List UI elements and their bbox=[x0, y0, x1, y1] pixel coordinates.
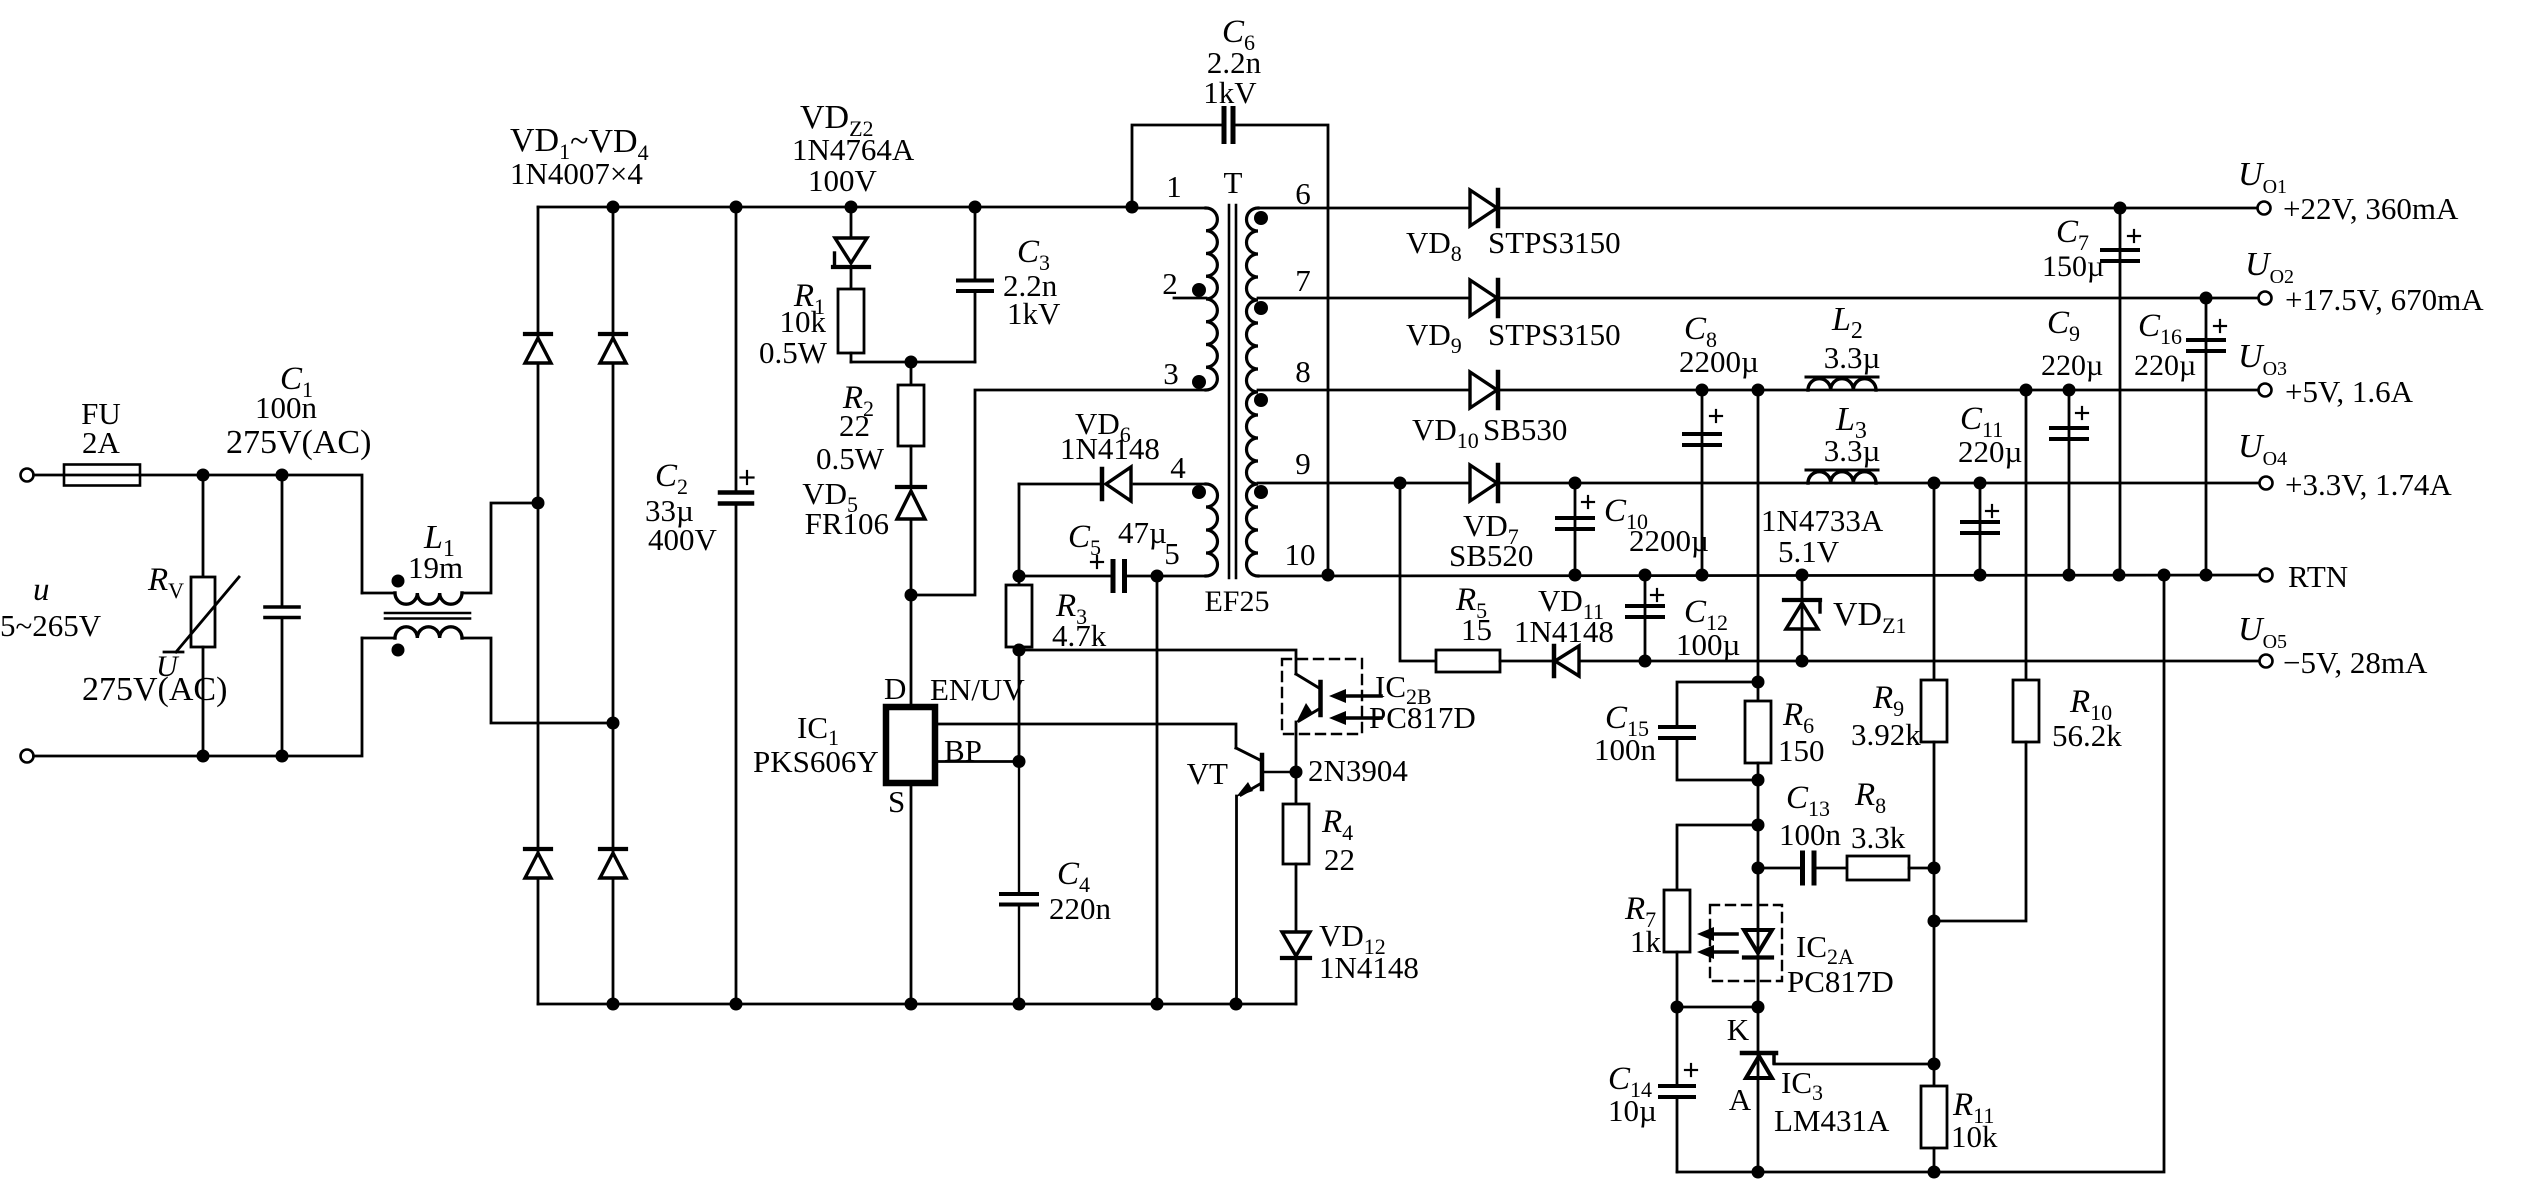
resistor R11 bbox=[1921, 1086, 1947, 1148]
svg-text:IC3: IC3 bbox=[1781, 1065, 1823, 1105]
svg-text:10µ: 10µ bbox=[1608, 1093, 1657, 1128]
wire VD11 to UO5 terminal bbox=[1580, 660, 2259, 663]
wire BP pin bbox=[935, 760, 1019, 763]
svg-text:2: 2 bbox=[1162, 266, 1178, 301]
svg-text:1N4148: 1N4148 bbox=[1060, 431, 1160, 466]
svg-text:1N4733A: 1N4733A bbox=[1761, 503, 1884, 538]
node C13 branch bbox=[1752, 862, 1765, 875]
svg-text:PKS606Y: PKS606Y bbox=[753, 744, 879, 779]
svg-text:VDZ1: VDZ1 bbox=[1833, 596, 1907, 638]
wire R3 bottom to optocoupler collector bbox=[1019, 650, 1296, 674]
choke L1 top winding bbox=[362, 592, 395, 595]
svg-text:0.5W: 0.5W bbox=[759, 335, 828, 370]
svg-text:EF25: EF25 bbox=[1204, 585, 1269, 618]
svg-text:1k: 1k bbox=[1630, 924, 1662, 959]
capacitor C15 bbox=[1677, 682, 1758, 725]
svg-text:C7: C7 bbox=[2056, 214, 2089, 255]
plus sign C12 bbox=[1651, 594, 1663, 596]
svg-text:3.92k: 3.92k bbox=[1851, 717, 1921, 752]
svg-text:K: K bbox=[1727, 1012, 1750, 1047]
wire DC+ top bus bbox=[538, 206, 1132, 209]
wire S pin to bottom bus bbox=[910, 783, 913, 1004]
svg-text:5.1V: 5.1V bbox=[1778, 534, 1840, 569]
diode VD5 bbox=[897, 485, 925, 489]
svg-text:VD10: VD10 bbox=[1412, 412, 1479, 453]
capacitor C6 bbox=[1132, 125, 1222, 208]
capacitor C11 bbox=[1979, 483, 1982, 575]
inductor L3 bbox=[1808, 472, 1876, 483]
node bias bbox=[1013, 570, 1026, 583]
svg-text:+5V, 1.6A: +5V, 1.6A bbox=[2285, 374, 2414, 409]
node pin5 tap bbox=[1151, 570, 1164, 583]
svg-text:1N4007×4: 1N4007×4 bbox=[510, 156, 643, 191]
svg-text:A: A bbox=[1729, 1082, 1752, 1117]
wire AC neutral rail bbox=[34, 638, 363, 756]
wire to C13 bbox=[1758, 867, 1800, 870]
svg-text:S: S bbox=[888, 784, 905, 819]
diode VD10 bbox=[1470, 372, 1497, 408]
resistor R2 bbox=[910, 362, 913, 385]
plus sign C7 bbox=[2128, 235, 2140, 237]
wire pin1 bbox=[1132, 207, 1206, 210]
choke L1 polarity dot top bbox=[392, 575, 405, 588]
wire feedback ground bus bbox=[1677, 575, 2164, 1172]
node LED cathode bbox=[1752, 1001, 1765, 1014]
plus sign C16 bbox=[2214, 325, 2226, 327]
svg-text:2200µ: 2200µ bbox=[1629, 523, 1709, 558]
svg-text:IC2A: IC2A bbox=[1796, 929, 1854, 969]
shunt regulator IC3 LM431A bbox=[1757, 1007, 1760, 1172]
svg-text:100n: 100n bbox=[255, 390, 318, 425]
wire drain to IC1 D pin bbox=[910, 595, 913, 708]
transformer secondary winding pins 6-10 bbox=[1247, 208, 1259, 576]
capacitor C9 bbox=[2068, 390, 2071, 575]
resistor R8 bbox=[1847, 856, 1909, 880]
diode VD4 bbox=[600, 847, 626, 851]
svg-text:47µ: 47µ bbox=[1118, 515, 1167, 550]
diode VD8 bbox=[1470, 190, 1497, 226]
wire bridge left column bbox=[537, 207, 540, 1004]
wire drain to pin3 bbox=[911, 390, 1206, 595]
plus sign C9 bbox=[2076, 412, 2088, 414]
svg-text:2200µ: 2200µ bbox=[1679, 344, 1759, 379]
svg-text:2A: 2A bbox=[82, 425, 121, 460]
zener diode VDZ2 bbox=[850, 207, 853, 238]
svg-text:100V: 100V bbox=[808, 163, 878, 198]
svg-text:PC817D: PC817D bbox=[1369, 700, 1476, 735]
optocoupler phototransistor IC2B bbox=[1318, 682, 1323, 715]
svg-text:SB530: SB530 bbox=[1483, 412, 1567, 447]
plus sign C10 bbox=[1582, 501, 1594, 503]
svg-text:FR106: FR106 bbox=[805, 506, 889, 541]
svg-text:19m: 19m bbox=[408, 550, 463, 585]
svg-text:1kV: 1kV bbox=[1007, 296, 1061, 331]
svg-text:LM431A: LM431A bbox=[1774, 1103, 1890, 1138]
input terminal top (L) bbox=[21, 469, 34, 482]
plus sign C11 bbox=[1986, 510, 1998, 512]
resistor R7 bbox=[1664, 890, 1690, 952]
node drain bbox=[905, 589, 918, 602]
node BP bbox=[1013, 755, 1026, 768]
diode VD9 bbox=[1470, 280, 1497, 316]
resistor R4 bbox=[1295, 772, 1298, 804]
capacitor C7 bbox=[2119, 208, 2122, 575]
diode VD11 bbox=[1555, 646, 1579, 676]
node VT base bbox=[1290, 766, 1303, 779]
svg-text:4: 4 bbox=[1170, 450, 1186, 485]
wire output UO2 +17.5V line (pin7) bbox=[1258, 297, 2258, 300]
svg-text:R8: R8 bbox=[1854, 777, 1886, 818]
wire output UO1 +22V line (pin6) bbox=[1258, 207, 2257, 210]
svg-text:−5V, 28mA: −5V, 28mA bbox=[2283, 645, 2428, 680]
svg-text:150: 150 bbox=[1778, 733, 1825, 768]
svg-text:100n: 100n bbox=[1779, 817, 1842, 852]
wire EN/UV to VT collector bbox=[935, 724, 1236, 748]
wire R6 column from +5V bbox=[1757, 390, 1760, 701]
input terminal bottom (N) bbox=[21, 750, 34, 763]
wire VD6 down to C5 node bbox=[1018, 484, 1021, 576]
wire live rail to choke bbox=[140, 475, 362, 593]
resistor R5 bbox=[1436, 650, 1500, 672]
svg-text:C9: C9 bbox=[2047, 305, 2080, 346]
transformer secondary polarity dots bbox=[1254, 211, 1268, 225]
svg-text:0.5W: 0.5W bbox=[816, 441, 885, 476]
svg-text:10: 10 bbox=[1285, 537, 1316, 572]
svg-text:+3.3V, 1.74A: +3.3V, 1.74A bbox=[2285, 467, 2452, 502]
wire output UO3 +5V line (pin8) bbox=[1258, 389, 2258, 392]
svg-text:C16: C16 bbox=[2138, 308, 2182, 349]
svg-text:R6: R6 bbox=[1782, 697, 1814, 738]
svg-text:3.3µ: 3.3µ bbox=[1824, 433, 1881, 468]
node R3 bottom bbox=[1013, 644, 1026, 657]
svg-text:UO5: UO5 bbox=[2238, 611, 2287, 653]
capacitor C1 bbox=[281, 475, 284, 606]
svg-text:STPS3150: STPS3150 bbox=[1488, 317, 1621, 352]
svg-text:u: u bbox=[33, 572, 50, 608]
wire pin4 line with VD6 bbox=[1019, 483, 1102, 486]
choke L1 bottom winding bbox=[362, 637, 395, 640]
svg-text:22: 22 bbox=[1324, 842, 1355, 877]
diode VD6 bbox=[1100, 469, 1105, 499]
wire feedback node to R7 bbox=[1677, 825, 1758, 890]
svg-text:220µ: 220µ bbox=[2134, 349, 2196, 382]
svg-text:275V(AC): 275V(AC) bbox=[226, 424, 371, 461]
capacitor C4 bbox=[1001, 892, 1037, 896]
optocoupler LED IC2A box bbox=[1710, 905, 1782, 981]
svg-text:UO4: UO4 bbox=[2238, 428, 2287, 470]
wire pin2 stub bbox=[1174, 297, 1206, 300]
svg-text:150µ: 150µ bbox=[2042, 250, 2104, 283]
output terminal UO3 bbox=[2259, 384, 2272, 397]
svg-text:100n: 100n bbox=[1594, 732, 1657, 767]
wire DC- bottom bus bbox=[538, 1003, 1296, 1006]
transistor VT 2N3904 bbox=[1260, 755, 1265, 789]
capacitor C16 bbox=[2205, 298, 2208, 575]
svg-text:3.3µ: 3.3µ bbox=[1824, 340, 1881, 375]
capacitor C8 bbox=[1701, 390, 1704, 575]
plus sign C5 bbox=[1091, 561, 1103, 563]
zener diode VDZ1 bbox=[1801, 575, 1804, 661]
diode VD3 bbox=[525, 847, 551, 851]
svg-text:56.2k: 56.2k bbox=[2052, 718, 2122, 753]
svg-text:VD8: VD8 bbox=[1406, 225, 1462, 266]
svg-text:PC817D: PC817D bbox=[1787, 964, 1894, 999]
inductor L2 bbox=[1808, 379, 1876, 390]
svg-text:8: 8 bbox=[1295, 354, 1311, 389]
capacitor C5 bbox=[1019, 575, 1110, 578]
svg-text:5~265V: 5~265V bbox=[0, 608, 102, 643]
svg-text:RV: RV bbox=[147, 562, 184, 603]
diode VD7 bbox=[1470, 465, 1497, 501]
optocoupler IC2B box bbox=[1282, 659, 1362, 734]
svg-text:10k: 10k bbox=[780, 304, 827, 339]
svg-text:STPS3150: STPS3150 bbox=[1488, 225, 1621, 260]
transformer bias polarity dot pin4 bbox=[1192, 485, 1206, 499]
wire IC3 ref line bbox=[1774, 1063, 1934, 1066]
svg-text:R4: R4 bbox=[1321, 804, 1353, 845]
svg-text:SB520: SB520 bbox=[1449, 538, 1533, 573]
wire RTN line (pin10) bbox=[1258, 575, 2259, 576]
varistor RV bbox=[202, 475, 205, 577]
wire R5 to VD11 bbox=[1500, 660, 1553, 663]
svg-text:D: D bbox=[884, 671, 906, 706]
resistor R10 bbox=[2025, 390, 2028, 680]
svg-text:EN/UV: EN/UV bbox=[930, 672, 1025, 707]
fuse FU 2A bbox=[64, 474, 140, 477]
svg-text:VT: VT bbox=[1187, 756, 1228, 791]
choke L1 polarity dot bottom bbox=[392, 644, 405, 657]
svg-text:1: 1 bbox=[1166, 169, 1182, 204]
svg-text:7: 7 bbox=[1295, 263, 1311, 298]
resistor R3 bbox=[1018, 576, 1021, 585]
svg-text:4.7k: 4.7k bbox=[1052, 618, 1107, 653]
output terminal UO1 bbox=[2258, 202, 2271, 215]
svg-text:UO1: UO1 bbox=[2238, 156, 2287, 198]
capacitor C10 bbox=[1574, 483, 1577, 575]
svg-text:3: 3 bbox=[1163, 356, 1179, 391]
output terminal RTN bbox=[2260, 569, 2273, 582]
svg-text:275V(AC): 275V(AC) bbox=[82, 671, 227, 708]
optocoupler LED IC2A bbox=[1757, 868, 1760, 1007]
transformer primary polarity dot pin2 bbox=[1192, 283, 1206, 297]
output terminal UO5 bbox=[2260, 655, 2273, 668]
svg-text:6: 6 bbox=[1295, 176, 1311, 211]
svg-text:220n: 220n bbox=[1049, 891, 1112, 926]
wire pin5 column bbox=[1156, 576, 1159, 1004]
output terminal UO2 bbox=[2259, 292, 2272, 305]
svg-text:400V: 400V bbox=[648, 522, 718, 557]
svg-text:3.3k: 3.3k bbox=[1851, 820, 1906, 855]
svg-text:1kV: 1kV bbox=[1203, 75, 1257, 110]
svg-text:C5: C5 bbox=[1068, 519, 1101, 560]
output terminal UO4 bbox=[2260, 477, 2273, 490]
resistor R1 bbox=[838, 289, 864, 353]
optocoupler IC2B light arrows bbox=[1341, 694, 1381, 698]
svg-text:L2: L2 bbox=[1831, 301, 1863, 344]
svg-text:220µ: 220µ bbox=[1958, 434, 2022, 469]
svg-text:1N4148: 1N4148 bbox=[1514, 614, 1614, 649]
svg-text:15: 15 bbox=[1461, 612, 1492, 647]
op-amp-IC IC1 PKS606Y body bbox=[886, 707, 935, 783]
svg-text:2N3904: 2N3904 bbox=[1308, 753, 1408, 788]
resistor R6 bbox=[1745, 701, 1771, 763]
svg-text:220µ: 220µ bbox=[2041, 349, 2103, 382]
capacitor C14 bbox=[1676, 1007, 1679, 1084]
svg-text:RTN: RTN bbox=[2288, 559, 2348, 594]
svg-text:22: 22 bbox=[839, 408, 870, 443]
diode VD2 bbox=[600, 332, 626, 336]
plus sign C8 bbox=[1710, 415, 1722, 417]
svg-text:100µ: 100µ bbox=[1676, 627, 1740, 662]
diode VD1 bbox=[525, 332, 551, 336]
resistor R9 bbox=[1933, 483, 1936, 680]
transformer bias winding pins 4-5 bbox=[1206, 484, 1218, 576]
choke L1 core bbox=[385, 612, 470, 615]
svg-text:R9: R9 bbox=[1872, 680, 1904, 721]
svg-text:C13: C13 bbox=[1786, 780, 1830, 821]
transformer primary polarity dot pin3 bbox=[1192, 375, 1206, 389]
svg-text:+17.5V, 670mA: +17.5V, 670mA bbox=[2285, 282, 2484, 317]
svg-text:9: 9 bbox=[1295, 446, 1311, 481]
wire output UO4 +3.3V line (pin9) bbox=[1258, 482, 2259, 485]
capacitor C13 bbox=[1800, 853, 1805, 883]
svg-text:10k: 10k bbox=[1951, 1119, 1998, 1154]
wire -5V line UO5 bbox=[1400, 483, 1436, 661]
svg-text:1N4148: 1N4148 bbox=[1319, 950, 1419, 985]
capacitor C12 bbox=[1644, 575, 1647, 661]
svg-text:T: T bbox=[1224, 165, 1243, 200]
transformer T core bbox=[1228, 205, 1231, 578]
transformer primary winding pins 1-3 bbox=[1206, 208, 1217, 390]
capacitor C3 bbox=[974, 207, 977, 279]
plus sign C2 bbox=[741, 476, 754, 478]
svg-text:UO3: UO3 bbox=[2238, 338, 2287, 380]
plus sign C14 bbox=[1685, 1069, 1697, 1071]
capacitor C2 bbox=[735, 207, 738, 490]
svg-text:+22V, 360mA: +22V, 360mA bbox=[2283, 191, 2459, 226]
diode VD12 bbox=[1282, 932, 1310, 956]
svg-text:5: 5 bbox=[1164, 536, 1180, 571]
wire AC live input bbox=[34, 474, 65, 477]
wire clamp joint bbox=[851, 361, 975, 364]
wire bridge right column bbox=[612, 207, 615, 1004]
wire R7 bottom link bbox=[1677, 1006, 1758, 1009]
svg-text:VD9: VD9 bbox=[1406, 317, 1462, 358]
optocoupler IC2A light arrows bbox=[1709, 932, 1737, 936]
svg-text:1N4764A: 1N4764A bbox=[792, 132, 915, 167]
